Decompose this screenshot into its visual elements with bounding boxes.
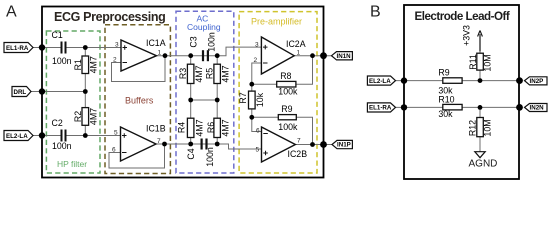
svg-text:R8: R8 [280,71,291,81]
svg-text:5: 5 [114,130,118,137]
svg-text:C3: C3 [189,36,199,47]
svg-text:100n: 100n [52,141,72,151]
svg-text:C2: C2 [52,118,63,128]
svg-text:IN1N: IN1N [337,53,352,60]
svg-text:100k: 100k [278,122,298,132]
svg-text:EL2-LA: EL2-LA [6,133,28,140]
svg-text:B: B [370,4,381,21]
svg-text:A: A [6,4,17,21]
svg-text:6: 6 [112,147,116,154]
svg-text:AGND: AGND [469,159,498,170]
svg-text:4M7: 4M7 [195,119,205,136]
svg-text:C4: C4 [186,148,196,159]
svg-text:IC2A: IC2A [286,39,306,49]
svg-text:R9: R9 [438,67,449,77]
svg-text:R3: R3 [178,68,188,79]
svg-text:EL1-RA: EL1-RA [6,45,29,52]
svg-text:R12: R12 [467,120,477,136]
svg-text:7: 7 [157,138,161,145]
svg-text:EL2-LA: EL2-LA [369,78,391,85]
svg-text:4M7: 4M7 [194,65,204,82]
svg-text:Pre-amplifier: Pre-amplifier [251,17,302,27]
svg-text:5: 5 [256,147,260,154]
svg-text:R5: R5 [205,68,215,79]
svg-text:ECG Preprocessing: ECG Preprocessing [54,10,165,24]
svg-text:C1: C1 [52,30,63,40]
svg-text:100n: 100n [52,56,72,66]
svg-text:R10: R10 [438,94,454,104]
svg-text:1: 1 [297,50,301,57]
svg-text:R7: R7 [238,92,248,103]
svg-text:Buffers: Buffers [125,96,154,106]
svg-text:IC2B: IC2B [288,149,308,159]
svg-text:6: 6 [256,128,260,135]
svg-text:R4: R4 [177,122,187,133]
svg-text:100n: 100n [207,32,217,52]
svg-text:7: 7 [297,138,301,145]
svg-text:R9: R9 [281,104,292,114]
svg-text:R1: R1 [73,59,83,70]
svg-text:1: 1 [158,50,162,57]
svg-text:R6: R6 [206,122,216,133]
svg-text:Electrode Lead-Off: Electrode Lead-Off [415,10,510,23]
svg-text:Coupling: Coupling [187,22,221,32]
svg-text:30k: 30k [438,109,453,119]
svg-text:R2: R2 [73,111,83,122]
svg-text:4M7: 4M7 [221,119,231,136]
svg-text:IN1P: IN1P [337,142,351,149]
svg-text:2: 2 [254,57,258,64]
svg-text:3: 3 [115,42,119,49]
svg-text:10M: 10M [483,54,493,71]
svg-text:4M7: 4M7 [89,108,99,125]
svg-text:10M: 10M [483,119,493,136]
svg-text:IC1B: IC1B [146,124,166,134]
svg-text:IN2N: IN2N [530,105,545,112]
svg-text:EL1-RA: EL1-RA [369,105,392,112]
svg-text:R11: R11 [468,54,478,70]
svg-text:+3V3: +3V3 [462,25,472,46]
svg-text:4M7: 4M7 [89,56,99,73]
svg-text:HP filter: HP filter [57,159,87,169]
svg-text:2: 2 [113,57,117,64]
svg-text:4M7: 4M7 [221,65,231,82]
svg-text:3: 3 [255,42,259,49]
svg-text:IN2P: IN2P [530,78,544,85]
svg-text:DRL: DRL [14,89,27,96]
svg-text:100k: 100k [278,87,298,97]
svg-text:IC1A: IC1A [146,38,166,48]
svg-text:100n: 100n [205,147,215,167]
svg-text:10k: 10k [255,92,265,107]
